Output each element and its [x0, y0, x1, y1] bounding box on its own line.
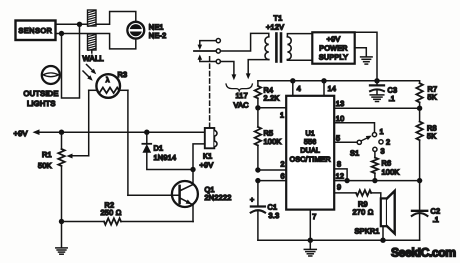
label R8 5K	[427, 123, 437, 140]
wire pin 2 line	[258, 169, 286, 171]
svg-text:U1: U1	[305, 131, 314, 138]
label OUTSIDE LIGHTS	[24, 89, 59, 108]
svg-text:270 Ω: 270 Ω	[353, 208, 374, 217]
switch S1 contact 1	[372, 133, 376, 137]
svg-text:3.3: 3.3	[269, 211, 280, 220]
ground below pin 7	[304, 240, 316, 256]
label K1 +9V	[200, 151, 214, 169]
wire bottom ground rail	[258, 239, 420, 241]
svg-text:100K: 100K	[382, 167, 400, 176]
transformer T1 secondary winding	[287, 37, 291, 60]
label D1 1N914	[154, 143, 177, 162]
outside lights lamp	[42, 66, 60, 84]
svg-text:10: 10	[336, 114, 345, 123]
wire R3 left lead down to R1 wiper	[88, 90, 90, 156]
svg-text:LIGHTS: LIGHTS	[27, 99, 56, 108]
wire sensor bottom lead to NE1 loop	[56, 34, 136, 49]
resistor R8	[416, 108, 422, 180]
transformer T1 primary winding	[265, 37, 269, 60]
svg-text:λ: λ	[106, 76, 110, 84]
sensor box SENSOR	[16, 21, 56, 41]
svg-text:4: 4	[297, 84, 301, 93]
node bus pin14	[321, 78, 326, 83]
label R9 270ohm	[353, 200, 374, 217]
label C3 .1	[388, 85, 398, 103]
resistor R9	[356, 190, 381, 198]
svg-text:250 Ω: 250 Ω	[101, 208, 122, 217]
svg-text:+: +	[250, 197, 254, 204]
svg-text:2N2222: 2N2222	[205, 193, 232, 202]
label Q1 2N2222	[205, 185, 232, 202]
svg-text:1: 1	[280, 110, 284, 119]
wire K1 coil bottom to collector node	[193, 144, 205, 170]
wire bottom contact to AC line	[220, 62, 236, 81]
wire power supply output to +9V bus	[355, 32, 377, 81]
node bus at R1	[59, 130, 64, 135]
label NE1 NE-2	[149, 23, 167, 40]
wire T1 secondary top to power supply	[287, 34, 312, 37]
node bus C3	[374, 78, 379, 83]
svg-text:+9V: +9V	[327, 35, 341, 44]
label R4 2.2K	[264, 86, 280, 103]
svg-text:117: 117	[236, 91, 248, 100]
node bus pin4	[290, 78, 295, 83]
node bus at D1	[144, 130, 149, 135]
wall upper hatched block	[88, 10, 97, 26]
svg-text:50K: 50K	[38, 161, 52, 170]
svg-text:VAC: VAC	[234, 101, 249, 110]
resistor R7	[416, 81, 422, 108]
svg-text:2: 2	[281, 160, 285, 169]
node collector junction	[190, 167, 195, 172]
svg-text:13: 13	[336, 99, 345, 108]
wire pin 6 line	[258, 180, 286, 182]
capacitor C1	[251, 181, 265, 241]
svg-text:OUTSIDE: OUTSIDE	[24, 89, 59, 98]
transformer T1 core	[276, 34, 281, 62]
switch S1 contact 2	[379, 140, 383, 144]
svg-text:12: 12	[336, 171, 345, 180]
neon lamp NE1	[127, 22, 144, 39]
node pin2	[255, 167, 260, 172]
wire pin 4 stub	[292, 81, 294, 96]
svg-text:8: 8	[337, 159, 341, 168]
relay coil K1	[205, 128, 217, 148]
svg-text:SENSOR: SENSOR	[19, 26, 53, 35]
wire pin 1 line	[258, 107, 286, 109]
svg-text:9: 9	[337, 182, 341, 191]
wall dashed continuation	[91, 50, 93, 57]
svg-text:.1: .1	[433, 215, 440, 224]
svg-text:SPKR1: SPKR1	[355, 226, 380, 235]
svg-text:+9V: +9V	[14, 129, 28, 138]
speaker SPKR1	[381, 191, 395, 234]
capacitor C2	[412, 181, 428, 241]
node pin8 joins pin12	[344, 178, 349, 183]
wire +9V bus	[36, 131, 205, 133]
svg-text:3: 3	[381, 146, 385, 155]
svg-text:T1: T1	[274, 13, 283, 22]
label R5 100K	[264, 128, 282, 146]
svg-text:5K: 5K	[427, 131, 436, 140]
svg-text:5K: 5K	[428, 92, 437, 101]
arrowhead +9V rail	[33, 129, 40, 135]
light arrow 2 at R3	[83, 71, 93, 81]
wire sensor drop pair joined at bottom	[62, 24, 80, 98]
capacitor C3	[370, 81, 384, 95]
svg-text:1N914: 1N914	[154, 153, 177, 162]
resistor R5	[255, 108, 261, 170]
svg-text:WALL: WALL	[83, 54, 104, 63]
svg-text:6: 6	[281, 171, 285, 180]
wire R3 right lead down to Q1 base	[127, 90, 129, 195]
wall lower hatched block	[88, 34, 97, 50]
wire top contact hook	[198, 41, 217, 50]
node speaker ground	[380, 238, 385, 243]
svg-text:14: 14	[328, 84, 337, 93]
diode D1 1N914	[142, 132, 193, 169]
wire right +9V bus	[258, 80, 420, 82]
wire speaker to ground rail	[382, 226, 384, 240]
label T1 +12V	[266, 13, 284, 31]
svg-text:OSC/TIMER: OSC/TIMER	[290, 155, 331, 163]
wire pin 5 line	[334, 141, 357, 143]
wire pin 13 line	[334, 107, 419, 109]
node R1 bottom / R2	[59, 219, 64, 224]
svg-text:POWER: POWER	[319, 44, 347, 53]
label 117 VAC	[234, 91, 249, 109]
node on bottom sensor wire	[59, 31, 64, 36]
wire middle contact to T1 primary top	[220, 33, 268, 51]
node R6 bottom	[372, 178, 377, 183]
wire pin 14 stub	[323, 81, 325, 96]
label R2 250ohm	[101, 200, 122, 217]
label R6 100K	[382, 158, 400, 176]
node on top sensor wire	[77, 22, 82, 27]
svg-text:556: 556	[304, 139, 316, 146]
resistor R2	[62, 218, 194, 224]
svg-text:R6: R6	[382, 158, 392, 167]
svg-text:S1: S1	[350, 149, 359, 158]
svg-text:+12V: +12V	[266, 22, 284, 31]
svg-text:K1: K1	[203, 151, 212, 160]
svg-text:5: 5	[336, 133, 340, 142]
light arrow 1 at R3	[87, 65, 97, 75]
resistor R6	[372, 152, 378, 181]
node pin7 ground	[308, 238, 313, 243]
node pin6	[255, 178, 260, 183]
svg-text:DUAL: DUAL	[300, 148, 320, 155]
wire T1 secondary bottom to power supply	[287, 59, 312, 62]
relay contact terminal bottom	[216, 59, 220, 63]
ground at power supply	[355, 48, 372, 64]
svg-text:R1: R1	[42, 150, 52, 159]
label C1 3.3	[268, 202, 280, 220]
R1 wiper arm from R3	[67, 154, 89, 159]
svg-text:100K: 100K	[264, 137, 282, 146]
wire pin 8 hook	[334, 169, 347, 181]
ground below R1	[56, 222, 67, 255]
svg-text:D1: D1	[154, 143, 164, 152]
wire pin 10 line to S1 position 1	[334, 123, 374, 133]
wire T1 primary bottom to AC line	[246, 60, 269, 80]
resistor R4	[255, 81, 261, 108]
node R7 R8 junction	[417, 106, 422, 111]
switch S1 wiper	[357, 136, 372, 145]
label R7 5K	[428, 84, 438, 101]
svg-text:SeekIC.com: SeekIC.com	[391, 246, 456, 260]
ground below C3	[370, 94, 384, 96]
svg-text:1: 1	[380, 127, 384, 136]
relay contact terminal middle	[216, 49, 220, 53]
wire middle contact pole line	[194, 50, 216, 52]
svg-text:NE-2: NE-2	[149, 31, 167, 40]
op IC U1 556 dual osc/timer	[286, 96, 334, 210]
svg-text:R3: R3	[118, 70, 128, 79]
svg-text:.1: .1	[389, 94, 396, 103]
wire sensor top lead to NE1 loop	[56, 12, 136, 25]
label C2 .1	[431, 206, 441, 224]
node R4 bottom pin1	[255, 105, 260, 110]
svg-text:+9V: +9V	[200, 161, 214, 170]
117 VAC brace	[226, 84, 252, 91]
wire pin 12 line	[334, 180, 419, 182]
wire bottom contact hook	[198, 54, 217, 61]
switch S1 contact 3	[373, 147, 377, 151]
photocell R3	[89, 74, 128, 98]
transistor Q1 2N2222	[128, 170, 198, 222]
power supply box +9V	[312, 32, 354, 63]
svg-text:SUPPLY: SUPPLY	[319, 53, 348, 62]
relay actuator dashed link	[209, 55, 211, 128]
wire pin 9 line	[334, 192, 355, 194]
svg-text:2.2K: 2.2K	[264, 94, 280, 103]
svg-text:2: 2	[386, 138, 390, 147]
label R1 50K	[38, 150, 52, 170]
wire pin 7 stub	[309, 210, 311, 241]
node R8 bottom	[417, 178, 422, 183]
svg-text:7: 7	[312, 212, 316, 221]
relay contact terminal top	[216, 39, 220, 43]
potentiometer R1	[58, 132, 64, 221]
